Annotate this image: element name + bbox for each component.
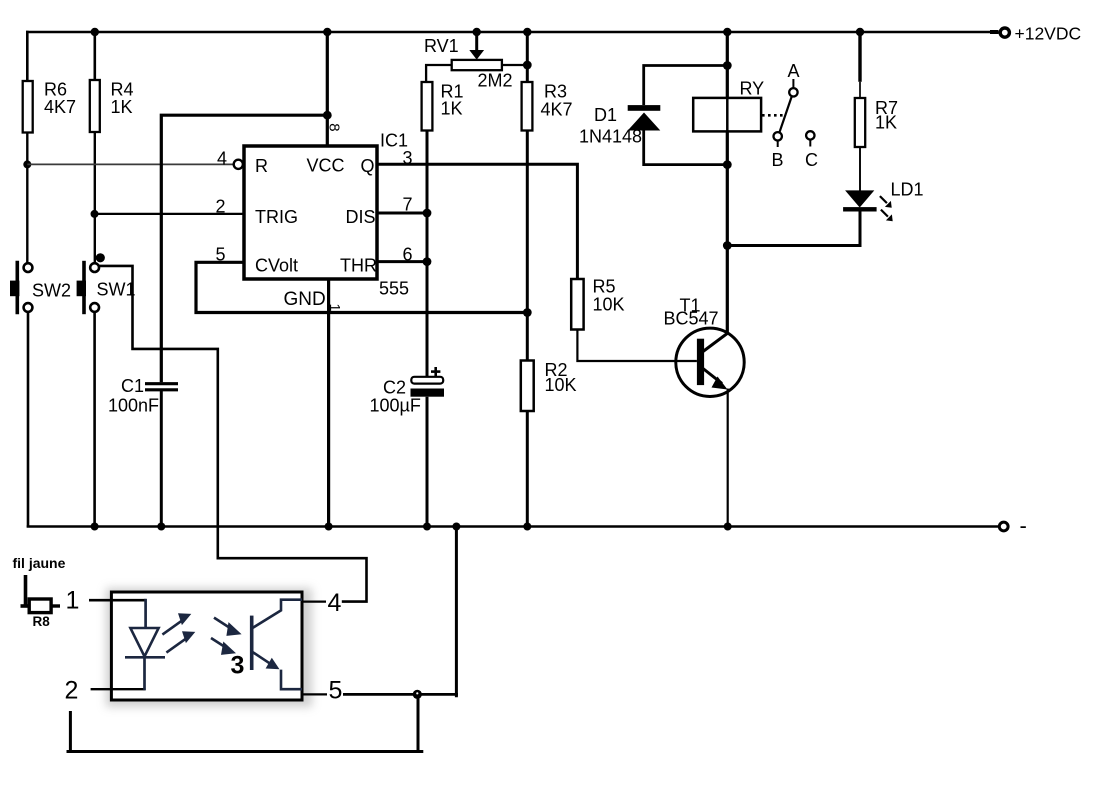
pin 3 label (231, 652, 245, 680)
svg-text:1N4148: 1N4148 (579, 127, 642, 147)
wire SW1 bottom to ground rail (93, 312, 96, 528)
svg-text:DIS: DIS (346, 207, 376, 227)
wire THR pin6 (377, 260, 428, 263)
LED emission arrows inside optocoupler (162, 613, 195, 652)
junction top rail / VCC column (323, 28, 331, 36)
svg-text:-: - (1020, 513, 1027, 538)
junction top rail / RV1 arrow (473, 28, 481, 36)
photon arrows to phototransistor (211, 618, 242, 655)
svg-text:A: A (788, 61, 800, 81)
svg-text:5: 5 (329, 677, 343, 705)
diode D1 1N4148 (579, 105, 660, 147)
wire left column top (26, 31, 29, 81)
pin 4 inverter circle on R input (217, 149, 243, 169)
svg-text:100µF: 100µF (370, 396, 421, 416)
wire SW1 to optocoupler pin4 (long path) (98, 266, 367, 602)
junction ground rail / opto pin5 drop (452, 523, 460, 531)
junction top rail / relay column (723, 28, 731, 36)
wire relay dashed actuator link (762, 114, 786, 117)
svg-text:TRIG: TRIG (255, 207, 298, 227)
wire 555 TRIG pin2 line (95, 213, 245, 215)
svg-text:555: 555 (379, 279, 409, 299)
junction relay column / D1 top (723, 61, 732, 70)
wire R7 top column (858, 32, 861, 98)
svg-text:RY: RY (740, 79, 765, 99)
junction SW1 top node (96, 253, 105, 262)
resistor R1 (422, 82, 464, 131)
svg-text:10K: 10K (593, 295, 625, 315)
wire D1 bottom link (644, 131, 728, 165)
junction top rail / R4 (91, 28, 99, 36)
svg-text:C1: C1 (121, 376, 144, 396)
resistor R8 (29, 599, 60, 629)
svg-text:SW2: SW2 (32, 281, 71, 301)
junction relay column / LED return wire (723, 241, 732, 250)
potentiometer RV1 arrow (469, 32, 484, 60)
svg-text:VCC: VCC (307, 156, 345, 176)
svg-text:1K: 1K (111, 97, 133, 117)
resistor R5 (571, 277, 624, 330)
junction R2 column / ground rail (523, 523, 531, 531)
resistor R4 (90, 80, 134, 133)
svg-text:100nF: 100nF (108, 396, 159, 416)
pin 5 label (302, 677, 342, 705)
wire GND pin1 column to ground rail (327, 279, 330, 528)
potentiometer RV1 (424, 36, 513, 91)
wire C1 bottom to ground rail (160, 391, 163, 528)
svg-text:+12VDC: +12VDC (1015, 24, 1082, 44)
wire D1 top link (644, 66, 728, 106)
wire R7 bottom to LED (859, 147, 861, 191)
wire C2 bottom to ground rail (426, 397, 429, 528)
pin 2 number (216, 197, 226, 217)
wire R2 bottom to ground rail (526, 411, 529, 528)
optocoupler U2 box (106, 588, 312, 707)
svg-text:RV1: RV1 (424, 36, 459, 56)
junction SW1 column / ground rail (91, 523, 99, 531)
svg-text:GND: GND (284, 289, 326, 310)
pin 3 number (403, 148, 413, 168)
svg-text:C: C (805, 150, 818, 170)
node +12VDC terminal (990, 24, 1081, 44)
relay RY coil (693, 79, 764, 132)
svg-text:R8: R8 (33, 614, 51, 629)
pin 2 label (65, 677, 79, 705)
wire VCC pin8 column (326, 32, 329, 146)
wire R1 bottom column to C2 (426, 131, 429, 378)
junction VCC column / C1 link (323, 111, 332, 120)
junction C1 column / ground rail (157, 523, 165, 531)
transistor T1 BC547 (664, 296, 745, 397)
svg-text:R5: R5 (593, 277, 616, 297)
wire relay column from rail (726, 32, 729, 98)
pin 8 label (rotated) (326, 123, 343, 131)
wire R4 top (94, 32, 97, 80)
svg-text:2: 2 (216, 197, 226, 217)
wire fil jaune stub (21, 575, 30, 606)
svg-text:4K7: 4K7 (44, 97, 76, 117)
op-amp IC1 555 timer box (244, 131, 409, 311)
switch SW2 (10, 261, 71, 314)
junction RV1 right / R3 column (523, 61, 532, 70)
junction top rail / R7 column (856, 28, 864, 36)
svg-text:R3: R3 (544, 82, 567, 102)
resistor R2 (521, 360, 577, 411)
node contact B (772, 132, 784, 170)
svg-text:THR: THR (340, 256, 377, 276)
junction relay column / D1 bottom (723, 160, 732, 169)
wire SW2 bottom to ground rail (27, 312, 30, 528)
wire ground bottom rail (27, 525, 998, 528)
junction R4 column / TRIG wire (91, 210, 99, 218)
wire R6 bottom to SW2 (26, 133, 28, 264)
node contact C (805, 131, 818, 170)
junction T1 emitter / ground rail (724, 523, 732, 531)
svg-text:fil jaune: fil jaune (13, 555, 66, 571)
wire T1 emitter to ground rail (727, 389, 729, 528)
svg-text:SW1: SW1 (97, 280, 136, 300)
capacitor C1 (108, 376, 178, 416)
LED inside optocoupler (125, 599, 165, 690)
wire +12V top rail (26, 31, 999, 34)
node fil jaune label (13, 555, 66, 571)
pin 1 label (rotated) on GND (326, 304, 342, 312)
junction pin5 wire (413, 690, 422, 699)
wire R4 bottom to SW1 (94, 132, 96, 264)
resistor R7 (855, 98, 898, 147)
node contact A (788, 61, 800, 97)
svg-text:Q: Q (361, 156, 375, 176)
svg-text:BC547: BC547 (664, 309, 719, 329)
wire Q pin3 output to R5 (377, 164, 577, 279)
wire relay bottom column (726, 131, 729, 333)
svg-text:C2: C2 (383, 378, 406, 398)
phototransistor inside optocoupler (252, 600, 302, 690)
resistor R6 (23, 80, 76, 133)
wire LED to relay column (727, 212, 860, 246)
svg-text:2: 2 (65, 677, 79, 705)
wire C1 column / VCC link (161, 115, 327, 382)
junction DIS / R1 column (423, 209, 432, 218)
wire RV1 left lead to R1 (426, 65, 452, 82)
svg-text:8: 8 (326, 123, 343, 131)
wire bottom return pin2 (67, 711, 424, 752)
svg-text:1K: 1K (441, 99, 463, 119)
svg-text:10K: 10K (545, 375, 577, 395)
pin 4 label (302, 589, 342, 617)
wire opto pin5 drop column (455, 527, 458, 698)
pin 1 label (66, 587, 80, 615)
wire pin5 junction down to bottom return (417, 694, 420, 753)
junction top rail / R3 (523, 28, 531, 36)
wire R3 bottom to R2 (526, 131, 529, 361)
svg-text:1K: 1K (875, 113, 897, 133)
wire DIS pin7 (377, 212, 428, 215)
svg-text:1: 1 (326, 304, 342, 312)
svg-text:B: B (772, 150, 784, 170)
wire 555 reset pin4 line (27, 163, 233, 165)
wire RV1 right lead to R3 column (502, 64, 527, 66)
wire R5 bottom to T1 base (577, 330, 697, 362)
svg-text:1: 1 (66, 587, 80, 615)
svg-text:4K7: 4K7 (541, 100, 573, 120)
wire switch arm A-B (780, 97, 792, 133)
wire R3 top (526, 32, 529, 82)
junction THR / R1 column (423, 257, 432, 266)
pin 6 number (403, 245, 413, 265)
junction C2 column / ground rail (423, 523, 431, 531)
svg-text:CVolt: CVolt (255, 256, 298, 276)
wire CVolt pin5 wrap-around (196, 262, 527, 312)
pin 5 number (216, 245, 226, 265)
junction CVolt wire / R3-R2 column (523, 308, 532, 317)
wire opto pin1 (89, 599, 146, 602)
node minus terminal (999, 513, 1027, 538)
svg-text:4: 4 (217, 149, 227, 169)
wire opto pin5 to drop column (343, 693, 458, 696)
switch SW1 (77, 261, 136, 314)
svg-text:R: R (255, 156, 268, 176)
svg-text:4: 4 (328, 589, 342, 617)
svg-text:D1: D1 (594, 105, 617, 125)
resistor R3 (522, 82, 573, 131)
svg-text:LD1: LD1 (891, 180, 924, 200)
capacitor C2 electrolytic (370, 367, 445, 416)
junction GND column / ground rail (325, 523, 333, 531)
pin 7 number (403, 195, 413, 215)
wire opto pin2 (91, 688, 146, 690)
svg-text:3: 3 (231, 652, 245, 680)
svg-text:2M2: 2M2 (478, 71, 513, 91)
LED LD1 (843, 180, 923, 222)
junction R6 column / pin4 wire (23, 160, 31, 168)
